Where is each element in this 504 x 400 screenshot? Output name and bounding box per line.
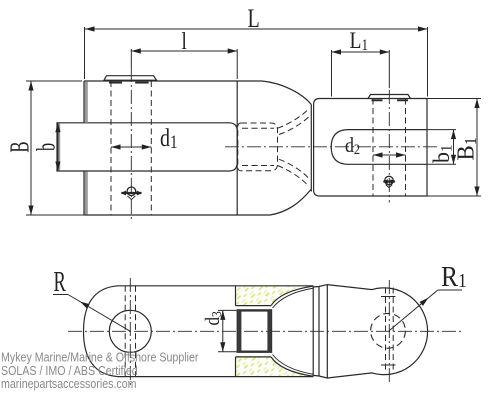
svg-text:marinepartsaccessories.com: marinepartsaccessories.com [1, 376, 137, 391]
svg-text:b: b [32, 143, 61, 151]
svg-text:R: R [54, 266, 67, 298]
svg-text:L: L [248, 5, 260, 34]
svg-text:l: l [182, 28, 187, 55]
svg-text:B: B [4, 141, 34, 152]
